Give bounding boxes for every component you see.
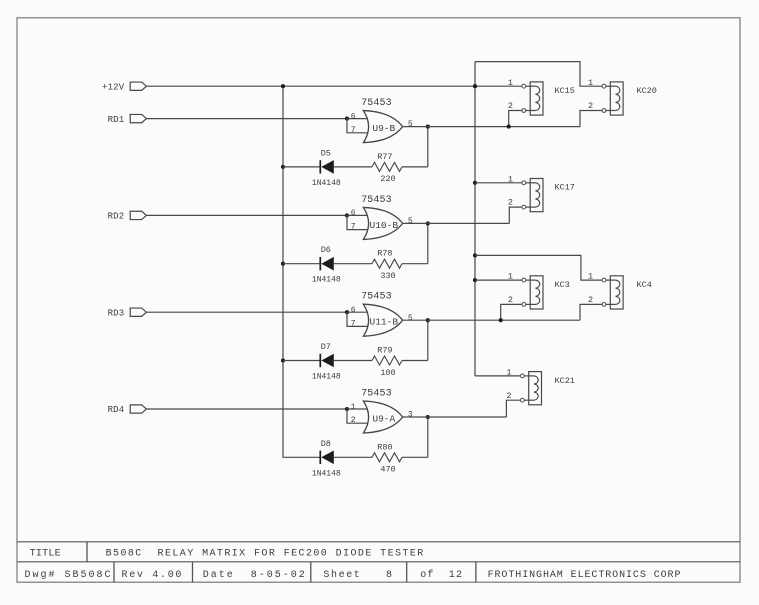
svg-text:Dwg# SB508C: Dwg# SB508C xyxy=(25,570,113,581)
pin label 5 xyxy=(408,217,413,226)
wire gate output row 3 xyxy=(403,319,580,321)
junction output row 4 xyxy=(426,415,430,419)
svg-text:D7: D7 xyxy=(321,342,331,352)
junction diode bus row 1 xyxy=(281,165,285,169)
junction output row 3 xyxy=(426,318,430,322)
wire gate output row 1 xyxy=(403,126,580,128)
svg-text:8: 8 xyxy=(386,570,392,581)
svg-text:1N4148: 1N4148 xyxy=(312,373,341,382)
svg-text:75453: 75453 xyxy=(361,388,392,399)
wire pin 6 stub xyxy=(347,118,368,120)
of number xyxy=(449,570,463,581)
relay KC15 xyxy=(508,78,575,115)
wire pin 2 jog xyxy=(347,409,368,423)
wire pin 7 jog xyxy=(347,312,368,326)
relay KC21 xyxy=(506,368,574,405)
wire gate output row 2 xyxy=(403,222,510,224)
junction RD1 input node xyxy=(345,117,349,121)
svg-text:6: 6 xyxy=(351,112,356,121)
gate U9-A body xyxy=(363,401,402,433)
svg-text:D8: D8 xyxy=(321,439,331,449)
wire output to R79 xyxy=(427,320,429,360)
junction RD4 input node xyxy=(345,407,349,411)
svg-text:6: 6 xyxy=(351,209,356,218)
wire pin 7 jog xyxy=(347,119,368,133)
junction output row 1 xyxy=(426,125,430,129)
input connector RD1 xyxy=(108,114,147,124)
op-gate 75453 U9-A label xyxy=(361,388,392,399)
svg-text:KC20: KC20 xyxy=(637,86,657,96)
svg-text:B508C RELAY MATRIX FOR FEC200: B508C RELAY MATRIX FOR FEC200 DIODE TEST… xyxy=(106,548,425,559)
svg-text:2: 2 xyxy=(508,198,513,208)
svg-text:2: 2 xyxy=(588,101,593,111)
junction RD2 input node xyxy=(345,213,349,217)
input connector RD2 xyxy=(108,211,147,221)
svg-text:R79: R79 xyxy=(377,346,392,356)
op-gate 75453 U11-B label xyxy=(361,292,392,303)
svg-text:R78: R78 xyxy=(377,249,392,259)
relay KC20 xyxy=(588,78,657,115)
diode D7 1N4148 xyxy=(312,342,372,382)
input connector +12V xyxy=(102,82,146,92)
wire relay +12V bus vertical xyxy=(474,62,476,376)
sheet label xyxy=(323,569,361,581)
svg-text:2: 2 xyxy=(508,295,513,305)
wire bus to D7 xyxy=(283,360,320,362)
svg-text:RD4: RD4 xyxy=(108,405,125,415)
wire bus to KC4 pin1 xyxy=(475,255,602,280)
svg-text:RD1: RD1 xyxy=(108,115,125,125)
svg-text:Date 8-05-02: Date 8-05-02 xyxy=(203,570,307,581)
svg-text:RD2: RD2 xyxy=(108,212,125,222)
wire RD2 to gate xyxy=(146,214,347,216)
svg-text:TITLE: TITLE xyxy=(30,548,61,559)
svg-text:KC15: KC15 xyxy=(555,86,575,96)
svg-text:1: 1 xyxy=(508,272,513,282)
wire KC20 pin2 to output xyxy=(580,111,602,127)
wire bus to D5 xyxy=(283,166,320,168)
svg-text:1: 1 xyxy=(506,368,511,378)
relay KC17 xyxy=(508,174,575,211)
svg-text:1N4148: 1N4148 xyxy=(312,276,341,285)
junction diode bus row 2 xyxy=(281,262,285,266)
input connector RD3 xyxy=(108,308,147,318)
pin label 7 xyxy=(351,223,356,232)
wire bus to D6 xyxy=(283,263,320,265)
svg-text:5: 5 xyxy=(408,217,413,226)
wire RD3 to gate xyxy=(146,311,347,313)
company name xyxy=(488,570,682,581)
svg-text:1: 1 xyxy=(588,272,593,282)
svg-text:75453: 75453 xyxy=(361,98,392,109)
wire output to R80 xyxy=(427,417,429,457)
svg-text:7: 7 xyxy=(351,126,356,135)
junction KC3 pin1 xyxy=(473,278,477,282)
pin label 2 xyxy=(351,416,356,425)
junction diode bus row 3 xyxy=(281,358,285,362)
pin label 3 xyxy=(408,411,413,420)
svg-text:75453: 75453 xyxy=(361,195,392,206)
op-gate 75453 U10-B label xyxy=(361,195,392,206)
wire pin 7 jog xyxy=(347,215,368,229)
svg-text:75453: 75453 xyxy=(361,292,392,303)
relay KC3 xyxy=(508,272,570,309)
svg-text:3: 3 xyxy=(408,411,413,420)
gate U10-B body xyxy=(363,207,402,239)
svg-text:5: 5 xyxy=(408,314,413,323)
pin label 7 xyxy=(351,319,356,328)
svg-text:KC21: KC21 xyxy=(555,376,575,386)
svg-text:12: 12 xyxy=(449,570,463,581)
junction KC15 pin2/output xyxy=(507,125,511,129)
svg-text:1: 1 xyxy=(351,403,356,412)
junction KC17 pin1 xyxy=(473,181,477,185)
svg-text:1N4148: 1N4148 xyxy=(312,469,341,478)
wire bus to KC3 pin1 xyxy=(475,279,522,281)
dwg number xyxy=(25,570,113,581)
pin label 6 xyxy=(351,209,356,218)
svg-text:RD3: RD3 xyxy=(108,308,125,318)
svg-text:1: 1 xyxy=(588,78,593,88)
svg-text:2: 2 xyxy=(506,391,511,401)
wire KC3 pin2 to output xyxy=(501,304,522,320)
gate U11-B body xyxy=(363,304,402,336)
junction KC4 branch xyxy=(473,253,477,257)
input connector RD4 xyxy=(108,405,147,415)
svg-text:1N4148: 1N4148 xyxy=(312,179,341,188)
gate U9-B body xyxy=(363,111,402,143)
diode D5 1N4148 xyxy=(312,148,372,188)
svg-text:R80: R80 xyxy=(377,442,392,452)
wire KC21 pin2 to output xyxy=(506,400,520,417)
wire diode bus vertical xyxy=(283,86,320,457)
wire pin 6 stub xyxy=(347,311,368,313)
svg-text:2: 2 xyxy=(351,416,356,425)
wire KC4 pin2 to output xyxy=(580,304,602,320)
junction KC3 pin2/output xyxy=(499,318,503,322)
resistor R79 100 xyxy=(372,346,428,378)
wire pin 6 stub xyxy=(347,214,368,216)
pin label 1 xyxy=(351,403,356,412)
svg-text:D6: D6 xyxy=(321,245,331,255)
junction output row 2 xyxy=(426,221,430,225)
svg-text:KC3: KC3 xyxy=(555,280,570,290)
pin label 6 xyxy=(351,112,356,121)
date xyxy=(203,570,307,581)
wire bus to KC21 pin1 xyxy=(475,375,522,377)
wire KC15 pin2 to output xyxy=(509,111,522,127)
diode D8 1N4148 xyxy=(312,439,372,479)
resistor R78 330 xyxy=(372,249,428,281)
svg-text:FROTHINGHAM ELECTRONICS CORP: FROTHINGHAM ELECTRONICS CORP xyxy=(488,570,682,581)
drawing title text xyxy=(106,548,425,559)
title label xyxy=(30,548,61,559)
wire bus to KC17 pin1 xyxy=(475,182,522,184)
svg-text:7: 7 xyxy=(351,319,356,328)
wire gate output row 4 xyxy=(403,416,507,418)
of label xyxy=(420,569,434,581)
junction +12V/diode-bus xyxy=(281,84,285,88)
svg-text:Rev 4.00: Rev 4.00 xyxy=(122,570,184,581)
svg-text:2: 2 xyxy=(588,295,593,305)
svg-text:330: 330 xyxy=(380,271,395,281)
wire pin 1 stub xyxy=(347,408,368,410)
svg-text:220: 220 xyxy=(380,174,395,184)
svg-text:100: 100 xyxy=(380,368,395,378)
svg-text:R77: R77 xyxy=(377,152,392,162)
svg-text:1: 1 xyxy=(508,78,513,88)
svg-text:D5: D5 xyxy=(321,148,331,158)
wire output to R77 xyxy=(427,127,429,167)
pin label 5 xyxy=(408,120,413,129)
op-gate 75453 U9-B label xyxy=(361,98,392,109)
junction +12V/relay-bus xyxy=(473,84,477,88)
svg-text:U9-B: U9-B xyxy=(372,123,395,134)
svg-text:U10-B: U10-B xyxy=(370,220,399,231)
svg-text:2: 2 xyxy=(508,101,513,111)
svg-text:of: of xyxy=(420,569,434,581)
svg-text:KC4: KC4 xyxy=(637,280,652,290)
svg-text:U11-B: U11-B xyxy=(370,317,399,328)
resistor R80 470 xyxy=(372,442,428,474)
svg-text:470: 470 xyxy=(380,465,395,475)
wire output to R78 xyxy=(427,223,429,263)
title block grid xyxy=(17,542,740,582)
pin label 7 xyxy=(351,126,356,135)
svg-text:5: 5 xyxy=(408,120,413,129)
pin label 6 xyxy=(351,306,356,315)
pin label 5 xyxy=(408,314,413,323)
rev xyxy=(122,570,184,581)
wire RD4 to gate xyxy=(146,408,347,410)
wire +12V loop to KC20 pin1 xyxy=(475,62,602,87)
svg-text:Sheet: Sheet xyxy=(323,569,361,581)
diode D6 1N4148 xyxy=(312,245,372,285)
svg-text:6: 6 xyxy=(351,306,356,315)
wire +12V rail xyxy=(146,85,522,87)
svg-text:7: 7 xyxy=(351,223,356,232)
resistor R77 220 xyxy=(372,152,428,184)
svg-text:KC17: KC17 xyxy=(555,183,575,193)
svg-text:1: 1 xyxy=(508,174,513,184)
relay KC4 xyxy=(588,272,652,309)
wire KC17 pin2 to output xyxy=(509,207,522,223)
junction RD3 input node xyxy=(345,310,349,314)
svg-text:+12V: +12V xyxy=(102,82,125,92)
sheet number xyxy=(386,570,392,581)
wire RD1 to gate xyxy=(146,118,347,120)
svg-text:U9-A: U9-A xyxy=(372,413,395,424)
